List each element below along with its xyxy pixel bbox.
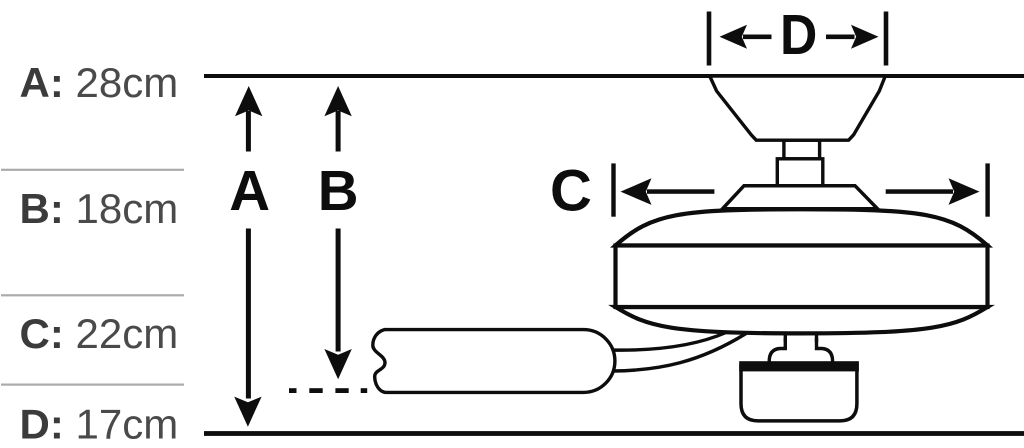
dimension B down head bbox=[324, 349, 351, 379]
motor bottom bowl bbox=[616, 307, 988, 333]
lamp black band bbox=[739, 361, 859, 371]
dimension C right arrow bbox=[949, 178, 980, 205]
blade arm upper curve bbox=[610, 333, 726, 351]
fan blade with break symbol bbox=[373, 330, 615, 393]
legend divider 3 bbox=[1, 384, 184, 386]
light stem left line bbox=[784, 324, 787, 342]
floor line bbox=[204, 431, 1024, 436]
downrod lower rect bbox=[777, 159, 823, 186]
dimension C left tick bbox=[611, 163, 615, 216]
dimension D right arrow bbox=[851, 25, 879, 49]
dashed reference line bbox=[289, 388, 297, 393]
downrod upper rect bbox=[784, 140, 820, 159]
svg-text:A: A bbox=[229, 159, 270, 222]
svg-text:A: 28cm: A: 28cm bbox=[20, 59, 179, 106]
svg-text:D: D bbox=[780, 3, 817, 66]
dimension D right tick bbox=[884, 12, 889, 66]
dimension A upper shaft bbox=[246, 111, 251, 152]
svg-text:B: B bbox=[318, 159, 359, 222]
lamp shoulder left bbox=[769, 338, 785, 362]
dimension A lower shaft bbox=[246, 229, 251, 399]
svg-text:C: 22cm: C: 22cm bbox=[20, 310, 179, 357]
dimension A arrow up head bbox=[235, 86, 262, 116]
canopy bbox=[710, 76, 886, 140]
lamp cup bbox=[741, 366, 857, 421]
legend divider 1 bbox=[1, 169, 184, 171]
svg-text:B: 18cm: B: 18cm bbox=[20, 185, 179, 232]
dimension A down head bbox=[234, 397, 261, 427]
motor top dome bbox=[616, 209, 988, 245]
dimension D left arrow bbox=[720, 25, 748, 49]
dimension C right tick bbox=[985, 163, 989, 216]
motor body rect bbox=[616, 246, 988, 308]
blade arm lower curve bbox=[613, 334, 746, 372]
mounting flange bbox=[723, 186, 878, 209]
ceiling line bbox=[204, 74, 1024, 78]
dimension B upper shaft bbox=[336, 111, 341, 152]
dimension D left tick bbox=[707, 12, 712, 66]
svg-text:C: C bbox=[550, 159, 592, 224]
dimension C left arrow bbox=[621, 178, 652, 205]
svg-text:D: 17cm: D: 17cm bbox=[20, 401, 179, 448]
light stem right line bbox=[815, 324, 818, 342]
dimension B arrow up head bbox=[324, 86, 351, 116]
lamp shoulder right bbox=[817, 338, 833, 362]
legend divider 2 bbox=[1, 294, 184, 296]
dimension B lower shaft bbox=[336, 229, 341, 352]
